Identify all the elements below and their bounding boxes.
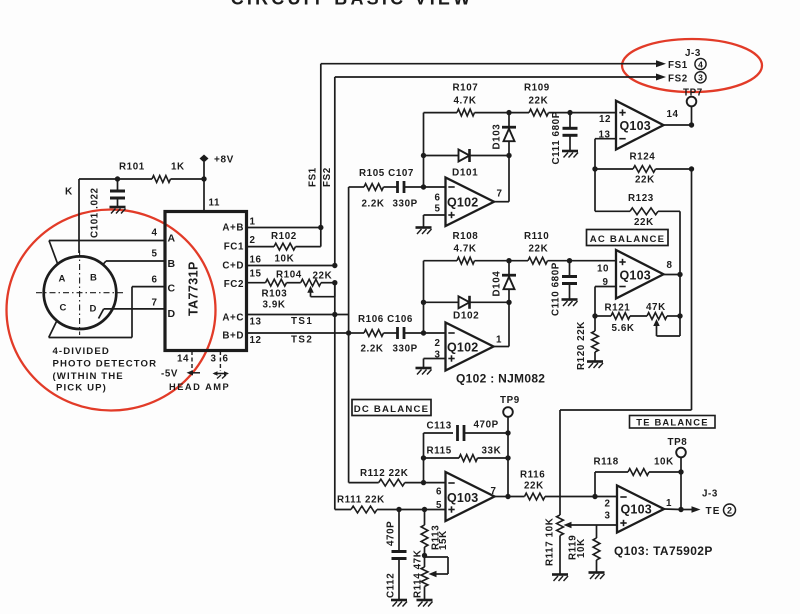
labels R121 47K 5.6K — [605, 302, 666, 334]
svg-text:470P: 470P — [474, 420, 499, 431]
wire to Q103a + — [570, 112, 616, 114]
svg-text:R105 C107: R105 C107 — [359, 168, 414, 179]
potentiometer R114 — [421, 556, 448, 600]
node FC2/pot — [332, 280, 337, 285]
op-amp Q102b — [446, 323, 494, 371]
resistor R121 5.6K — [595, 313, 647, 320]
wire Q103c output — [495, 496, 509, 498]
svg-text:R111 22K: R111 22K — [337, 495, 385, 506]
label R114 47K — [413, 550, 424, 598]
pin 6 label — [152, 275, 176, 295]
IC name TA7731P — [187, 261, 201, 316]
svg-text:D: D — [168, 308, 176, 320]
svg-text:3: 3 — [698, 73, 703, 83]
labels C+D 16 — [222, 255, 261, 272]
labels R112 22K — [360, 468, 408, 479]
svg-text:10K: 10K — [576, 538, 587, 558]
wire Q102b pin3 ground — [424, 359, 446, 368]
wire FS2/TS1 segment — [334, 283, 336, 315]
pin 5 label — [152, 249, 176, 271]
label C110 680P — [551, 262, 562, 316]
svg-text:6: 6 — [223, 354, 229, 365]
labels R116 22K — [520, 470, 545, 492]
svg-text:R112 22K: R112 22K — [360, 468, 408, 479]
wire out8 to R121 — [679, 275, 681, 317]
capacitor C107 — [398, 181, 446, 193]
svg-text:15K: 15K — [438, 530, 449, 550]
svg-text:47K: 47K — [646, 302, 666, 313]
label HEAD AMP — [169, 382, 230, 392]
svg-text:D102: D102 — [453, 311, 479, 322]
svg-text:A: A — [168, 233, 176, 245]
Q102a symbols — [448, 187, 454, 218]
svg-text:13: 13 — [250, 317, 262, 328]
pin 1 labels — [222, 217, 255, 234]
svg-text:R110: R110 — [524, 231, 549, 242]
svg-text:CIRCUIT BASIC VIEW: CIRCUIT BASIC VIEW — [231, 0, 474, 9]
svg-text:R106 C106: R106 C106 — [358, 314, 413, 325]
wire FS1 net — [321, 64, 657, 228]
svg-text:TS2: TS2 — [291, 335, 313, 346]
resistor R119 — [593, 538, 600, 572]
label D104 — [492, 271, 503, 297]
label D102 — [453, 311, 479, 322]
wire Q103a output — [664, 124, 692, 126]
label J-3 top — [685, 48, 701, 59]
pin 14 stem — [191, 351, 193, 371]
svg-text:Q102: Q102 — [447, 196, 478, 210]
node C110 tap — [567, 258, 572, 263]
label D101 — [452, 168, 478, 179]
Q103b symbols — [619, 259, 625, 287]
label J-3 bottom — [702, 489, 718, 500]
node D102 right — [506, 300, 511, 305]
svg-text:TE: TE — [706, 506, 721, 517]
svg-text:C101 .022: C101 .022 — [90, 187, 101, 238]
svg-text:1: 1 — [666, 498, 672, 509]
resistor R118 — [595, 469, 681, 476]
labels R110 22K — [524, 231, 549, 255]
node pin2 net — [421, 330, 426, 335]
wire Q102a output — [494, 156, 509, 202]
label Q103:TA75902P — [614, 544, 713, 558]
svg-text:C: C — [168, 283, 176, 295]
wire TS1/TS2 riser — [348, 187, 350, 333]
svg-text:HEAD AMP: HEAD AMP — [169, 382, 230, 392]
svg-text:1: 1 — [496, 335, 502, 346]
ground R117 — [552, 575, 568, 582]
labels R124 22K — [630, 152, 656, 186]
ground Q102a — [416, 228, 432, 235]
op-amp Q103a — [616, 101, 664, 150]
wire FS2 net — [335, 77, 657, 266]
wire Q103d output — [664, 508, 681, 511]
svg-text:FS2: FS2 — [322, 167, 333, 187]
arrow FS2 — [656, 74, 666, 81]
svg-text:FS1: FS1 — [668, 60, 688, 71]
labels C113 470P — [427, 420, 499, 432]
labels C112 470P — [386, 521, 397, 598]
pin 2 wire FC1 — [247, 246, 275, 248]
diode D103 — [502, 113, 516, 156]
svg-text:1K: 1K — [171, 162, 185, 173]
node C112 tap — [396, 507, 401, 512]
svg-text:FS1: FS1 — [308, 167, 319, 187]
box TE BALANCE — [630, 416, 716, 429]
potentiometer R104 — [301, 279, 335, 296]
svg-text:TP9: TP9 — [500, 395, 520, 406]
wire TP8 drop — [680, 472, 682, 510]
wire top-loop left riser — [423, 113, 425, 187]
svg-text:7: 7 — [497, 189, 503, 200]
node D104 top — [506, 258, 511, 263]
wire out14 to TE balance — [560, 169, 692, 515]
node C113 right — [505, 430, 510, 435]
svg-text:R107: R107 — [453, 83, 479, 94]
ground R120 — [587, 362, 603, 369]
node D101 left — [421, 153, 426, 158]
wire to Q103b + — [570, 260, 617, 262]
svg-text:Q103: Q103 — [447, 491, 478, 505]
svg-text:3: 3 — [211, 354, 217, 365]
labels R106 C106 2.2K 330P — [358, 314, 418, 355]
svg-text:R103: R103 — [262, 289, 288, 300]
svg-text:5: 5 — [152, 249, 158, 260]
Q103d labels — [605, 498, 673, 522]
resistor R116 — [508, 493, 595, 500]
Q103a labels — [599, 109, 679, 141]
capacitor C111 — [563, 113, 578, 151]
wire Q103b output — [664, 274, 681, 276]
label R120 22K — [576, 321, 587, 370]
pin 11 label — [209, 198, 221, 209]
svg-text:22K: 22K — [634, 217, 654, 228]
testpoint TP8 — [668, 437, 688, 472]
resistor R112 — [379, 479, 446, 486]
node R115 left — [421, 455, 426, 460]
svg-text:16: 16 — [250, 255, 262, 266]
labels R109 22K — [524, 83, 550, 107]
svg-text:15: 15 — [250, 269, 262, 280]
wire Q103b pin9 — [595, 287, 616, 317]
node D102 left — [421, 300, 426, 305]
svg-text:2.2K: 2.2K — [361, 344, 384, 355]
R117 wiper — [564, 522, 618, 529]
Q103a symbols — [619, 109, 625, 138]
svg-text:R104: R104 — [276, 270, 302, 281]
svg-text:A: A — [59, 274, 66, 285]
svg-text:TA7731P: TA7731P — [187, 261, 201, 316]
detector crosshair — [36, 251, 126, 336]
svg-text:11: 11 — [209, 198, 221, 209]
resistor R107 — [424, 109, 510, 116]
op-amp Q103d — [617, 486, 664, 533]
node output8 — [677, 272, 682, 277]
wire pin11 riser — [203, 179, 205, 212]
ground R114 — [417, 600, 433, 607]
wire TP9 riser — [507, 433, 509, 497]
node D101 right — [506, 153, 511, 158]
wire Q103a pin13 — [595, 139, 616, 169]
wire C113/R115 left riser — [423, 433, 425, 483]
Q103c labels — [436, 486, 497, 511]
svg-text:FC2: FC2 — [224, 279, 244, 290]
svg-text:J-3: J-3 — [685, 48, 701, 59]
Q103b labels — [597, 260, 673, 288]
node pin1/FS1 — [318, 225, 323, 230]
photo detector circle — [44, 256, 117, 329]
capacitor C113 — [424, 425, 509, 441]
svg-text:C110 680P: C110 680P — [551, 262, 562, 316]
svg-text:TP8: TP8 — [668, 437, 688, 448]
potentiometer 47K — [647, 313, 680, 336]
resistor R105 — [349, 184, 397, 191]
svg-text:5: 5 — [436, 500, 442, 511]
svg-text:B+D: B+D — [222, 331, 244, 342]
svg-text:2: 2 — [435, 338, 441, 349]
svg-text:2: 2 — [727, 506, 732, 516]
svg-text:330P: 330P — [393, 199, 418, 210]
label FS1 vertical — [308, 167, 319, 187]
svg-text:C112: C112 — [386, 573, 397, 598]
resistor R123 — [595, 208, 680, 215]
svg-text:4.7K: 4.7K — [454, 96, 477, 107]
svg-text:Q103: Q103 — [621, 503, 652, 517]
svg-text:330P: 330P — [393, 344, 418, 355]
svg-text:4: 4 — [152, 228, 158, 239]
node pin6 net — [421, 184, 426, 189]
box AC BALANCE — [587, 230, 669, 246]
node C111 tap — [567, 110, 572, 115]
svg-text:PHOTO DETECTOR: PHOTO DETECTOR — [53, 359, 158, 370]
wire Q103d pin2 — [595, 496, 617, 499]
svg-text:14: 14 — [667, 109, 679, 120]
svg-text:10: 10 — [597, 264, 609, 275]
wire Q102a pin5 ground — [424, 215, 446, 227]
label C111 680P — [551, 111, 562, 164]
svg-text:Q102 : NJM082: Q102 : NJM082 — [456, 372, 545, 386]
svg-text:R102: R102 — [271, 231, 297, 242]
labels R118 10K — [594, 457, 674, 468]
svg-text:2: 2 — [250, 235, 256, 246]
svg-text:6: 6 — [436, 487, 442, 498]
resistor R103 — [266, 279, 301, 286]
detector quadrant letters — [59, 273, 98, 315]
svg-text:6: 6 — [152, 275, 158, 286]
label 14 — [177, 354, 189, 365]
svg-text:J-3: J-3 — [702, 489, 718, 500]
pin 6 wire — [49, 287, 165, 338]
label R117 10K — [545, 518, 556, 566]
pin 13 wire TS1 — [247, 314, 349, 316]
svg-text:22K: 22K — [313, 271, 333, 282]
arrow FS1 — [656, 60, 666, 67]
svg-text:10K: 10K — [275, 254, 295, 265]
connector circle 4 — [695, 58, 706, 69]
svg-text:R108: R108 — [453, 231, 479, 242]
svg-text:FC1: FC1 — [224, 242, 244, 253]
labels FC2 15 R104 22K R103 3.9K — [224, 269, 333, 311]
labels A+C 13 TS1 — [222, 313, 313, 328]
ground Q102b — [416, 368, 432, 375]
svg-text:Q103: Q103 — [620, 269, 651, 283]
arrow TE — [681, 506, 701, 513]
pin 15 wire FC2 — [247, 282, 266, 284]
node C101 tap — [115, 176, 120, 181]
svg-text:3: 3 — [605, 511, 611, 522]
svg-text:TE BALANCE: TE BALANCE — [636, 416, 708, 427]
pin 7 wire — [99, 309, 166, 319]
svg-text:5: 5 — [435, 204, 441, 215]
svg-text:4: 4 — [698, 59, 703, 69]
op-amp Q103b — [616, 250, 664, 299]
svg-text:2.2K: 2.2K — [362, 199, 385, 210]
labels R107 4.7K — [453, 83, 479, 107]
node R118 right — [678, 469, 683, 474]
svg-text:22K: 22K — [635, 175, 655, 186]
capacitor C112 — [392, 510, 407, 600]
label C101 .022 — [90, 187, 101, 238]
svg-text:C113: C113 — [427, 421, 452, 432]
Q103d symbols — [620, 497, 626, 526]
resistor R110 — [509, 257, 570, 264]
svg-text:TS1: TS1 — [291, 316, 313, 327]
node R115 right — [505, 455, 510, 460]
testpoint TP9 — [500, 395, 520, 433]
node R118 left — [592, 494, 597, 499]
Q102a labels — [435, 189, 503, 215]
svg-text:7: 7 — [152, 298, 158, 309]
node TE out — [678, 507, 683, 512]
pin 1 wire A+B — [247, 227, 321, 229]
svg-text:33K: 33K — [482, 446, 502, 457]
node R121 right — [677, 313, 682, 318]
node R124 left — [592, 166, 597, 171]
pin 4 label — [152, 228, 176, 245]
svg-text:A+B: A+B — [222, 223, 244, 234]
wire K drop to detector — [78, 179, 80, 253]
svg-text:3.9K: 3.9K — [263, 300, 286, 311]
svg-text:C+D: C+D — [222, 261, 244, 272]
red ellipse around J-3 FS outputs — [622, 39, 762, 92]
label D103 — [492, 124, 503, 150]
node R113/R114 — [422, 553, 427, 558]
svg-text:6: 6 — [435, 193, 441, 204]
Q102b symbols — [448, 333, 454, 362]
ground C110 — [562, 300, 578, 307]
svg-text:A+C: A+C — [222, 313, 244, 324]
labels R108 4.7K — [453, 231, 479, 255]
svg-text:R116: R116 — [520, 470, 545, 481]
svg-text:PICK UP): PICK UP) — [56, 383, 107, 394]
resistor R106 — [349, 330, 397, 337]
svg-text:K: K — [65, 187, 73, 198]
svg-text:R114 47K: R114 47K — [413, 550, 424, 598]
labels R105 C107 2.2K 330P — [359, 168, 418, 210]
svg-text:22K: 22K — [524, 481, 544, 492]
title text (clipped at top edge) — [231, 0, 474, 9]
svg-text:D: D — [90, 304, 97, 315]
svg-text:C111 680P: C111 680P — [551, 111, 562, 164]
IC U101 TA7731P box — [165, 212, 247, 351]
capacitor C101 — [110, 179, 125, 207]
svg-text:5.6K: 5.6K — [612, 323, 635, 334]
svg-text:AC BALANCE: AC BALANCE — [590, 234, 665, 245]
potentiometer R117 — [557, 515, 564, 574]
pin 12 wire TS2 — [247, 332, 349, 334]
resistor R108 — [424, 257, 510, 264]
wire R123 to out8 — [679, 211, 681, 274]
resistor R102 — [274, 228, 321, 251]
wire R118 riser — [594, 472, 596, 497]
svg-text:FS2: FS2 — [668, 73, 688, 84]
svg-text:R120 22K: R120 22K — [576, 321, 587, 370]
testpoint TP7 — [683, 88, 703, 126]
svg-text:4.7K: 4.7K — [454, 244, 477, 255]
+8V supply — [200, 155, 234, 166]
resistor R113 — [421, 510, 428, 555]
svg-text:B: B — [168, 258, 176, 270]
node +8V/R101 — [201, 176, 206, 181]
svg-text:C: C — [60, 303, 67, 314]
ground C101 — [110, 207, 126, 214]
node C+D/FS2 — [332, 263, 337, 268]
ground C112 — [391, 600, 407, 607]
wire 13-net riser — [594, 169, 596, 211]
svg-text:22K: 22K — [529, 244, 549, 255]
label TE — [706, 506, 721, 517]
wire Q102b output — [494, 302, 510, 346]
resistor R115 — [424, 455, 509, 462]
svg-text:+8V: +8V — [214, 155, 234, 166]
chassis symbol pins 3/6 — [213, 371, 230, 378]
node D103 top — [506, 110, 511, 115]
svg-text:8: 8 — [667, 260, 673, 271]
svg-text:TP7: TP7 — [683, 88, 703, 99]
svg-text:22K: 22K — [529, 96, 549, 107]
labels R123 22K — [628, 193, 654, 228]
resistor R124 — [595, 166, 692, 173]
capacitor C106 — [398, 327, 446, 339]
wire TS1 to R111 — [335, 315, 351, 510]
wire 2nd-loop left riser — [423, 261, 425, 333]
svg-text:R123: R123 — [628, 193, 654, 204]
svg-text:Q103: Q103 — [620, 119, 651, 133]
node output14 — [689, 122, 694, 127]
svg-text:12: 12 — [599, 114, 611, 125]
label FS1 out — [668, 60, 688, 71]
svg-text:12: 12 — [250, 335, 262, 346]
svg-text:R124: R124 — [630, 152, 656, 163]
label Q102:NJM082 — [456, 372, 545, 386]
node R124 right — [689, 166, 694, 171]
ground C111 — [562, 151, 578, 158]
label FS2 out — [668, 73, 688, 84]
node pin6dc net — [421, 480, 426, 485]
svg-text:4-DIVIDED: 4-DIVIDED — [53, 346, 110, 357]
resistor R109 — [509, 109, 570, 116]
label R101 1K — [119, 162, 185, 173]
labels 3 6 — [211, 354, 229, 365]
svg-text:14: 14 — [177, 354, 189, 365]
node output7dc — [505, 494, 510, 499]
capacitor C110 — [562, 261, 577, 299]
labels B+D 12 TS2 — [222, 331, 313, 347]
red circle around photo detector — [7, 210, 216, 411]
wire TS2 to R112 — [349, 333, 379, 483]
wire +8V to R101 node — [203, 162, 205, 179]
label R113 15K — [431, 525, 450, 550]
